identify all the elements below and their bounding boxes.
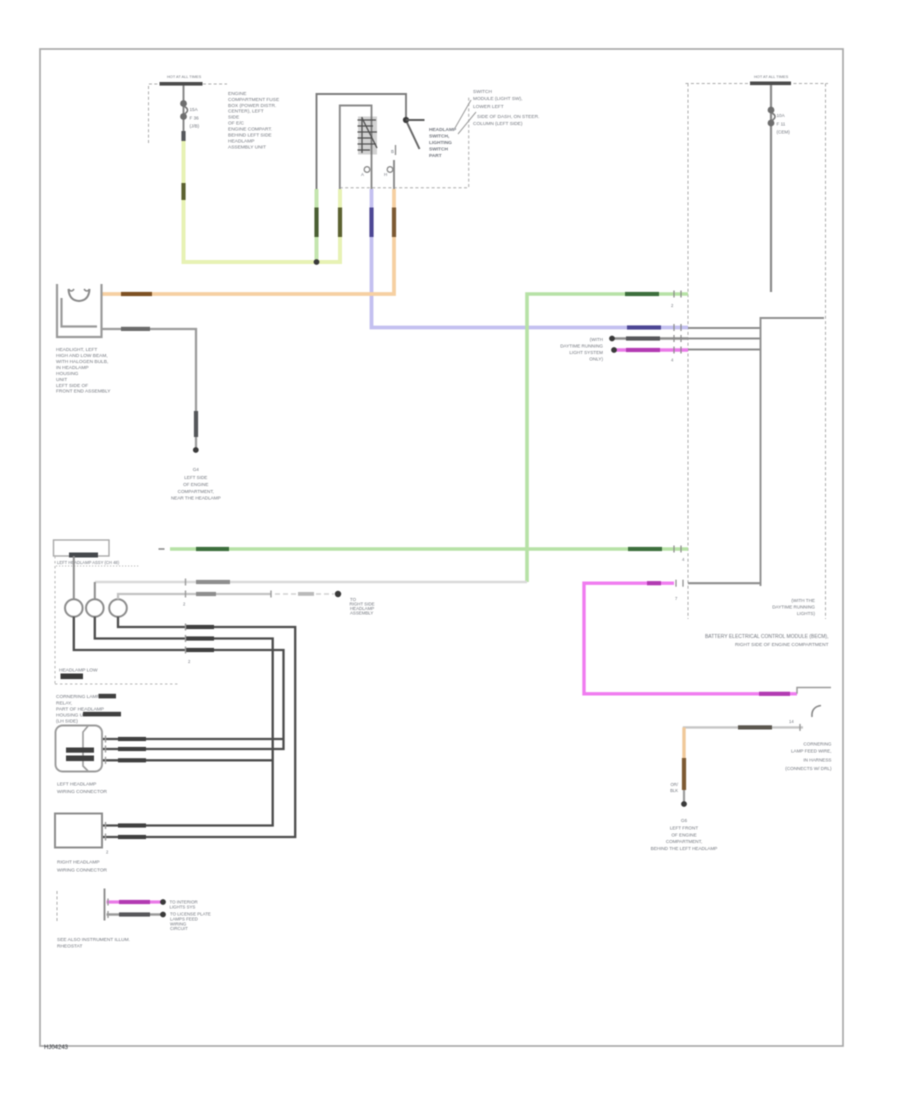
svg-text:LIGHTING: LIGHTING	[429, 140, 452, 146]
wire B2 top to white run	[94, 582, 96, 599]
hot-at-all-times bus bar	[160, 82, 203, 86]
svg-text:CORNERING: CORNERING	[803, 742, 832, 747]
dark segment in line 1	[99, 694, 117, 699]
pin ticks green at CEM	[673, 546, 675, 553]
ground junction dot	[681, 801, 687, 807]
bulb return wires loop C	[74, 617, 284, 749]
band BLK vertical	[194, 411, 198, 437]
blue wire below switch	[372, 189, 689, 328]
svg-text:LEFT HEADLAMP ASSY (CH 48): LEFT HEADLAMP ASSY (CH 48)	[57, 560, 120, 565]
svg-text:OF E/C: OF E/C	[228, 121, 245, 127]
splice band on fuse wire	[181, 131, 185, 141]
svg-text:RHEOSTAT: RHEOSTAT	[57, 944, 82, 950]
rotary switch symbol	[358, 117, 377, 155]
fuse F1 symbol	[180, 100, 187, 120]
headlamp ground wire to G4	[102, 329, 197, 450]
svg-text:IN HEADLAMP: IN HEADLAMP	[56, 365, 89, 371]
svg-text:(J/B): (J/B)	[190, 124, 200, 129]
lever tick and letter	[395, 145, 397, 155]
svg-text:(CONNECTS W/ DRL): (CONNECTS W/ DRL)	[785, 766, 832, 771]
svg-text:HJ04243: HJ04243	[44, 1045, 69, 1051]
faint continuation and label	[275, 593, 297, 595]
svg-text:15A: 15A	[190, 107, 199, 112]
svg-text:SIDE: SIDE	[228, 115, 239, 121]
band MAG	[119, 900, 150, 904]
wire from bus to fuse F2	[770, 85, 772, 292]
svg-text:CIRCUIT: CIRCUIT	[170, 926, 188, 931]
band GRY	[626, 336, 660, 340]
connector line 1	[102, 738, 284, 740]
svg-text:COLUMN (LEFT SIDE): COLUMN (LEFT SIDE)	[473, 121, 523, 127]
arrow terminal dot	[335, 591, 341, 597]
svg-text:HIGH AND LOW BEAM,: HIGH AND LOW BEAM,	[56, 353, 108, 359]
svg-text:PART: PART	[429, 153, 442, 159]
band PNK bottom	[759, 692, 790, 696]
svg-text:ENGINE: ENGINE	[228, 91, 246, 97]
left headlamp assembly connector box	[54, 540, 110, 556]
svg-text:HOUSING: HOUSING	[56, 371, 79, 377]
leader lines to external label	[455, 100, 471, 128]
svg-text:MODULE (LIGHT SW),: MODULE (LIGHT SW),	[473, 96, 522, 102]
wire box to B1	[73, 556, 75, 599]
svg-text:OR/: OR/	[671, 782, 679, 787]
hot-at-all-times bus bar right	[750, 82, 791, 86]
ground G6 label stack	[651, 818, 718, 851]
svg-text:UNIT: UNIT	[56, 377, 67, 383]
svg-text:B: B	[391, 149, 394, 154]
svg-text:NEAR THE HEADLAMP: NEAR THE HEADLAMP	[171, 496, 221, 501]
yellow wire below switch	[338, 189, 342, 262]
orange wire down and left to headlamp	[102, 189, 394, 294]
svg-text:RIGHT HEADLAMP: RIGHT HEADLAMP	[57, 860, 100, 866]
band GRN	[625, 292, 659, 296]
svg-text:COMPARTMENT,: COMPARTMENT,	[666, 839, 702, 844]
tick	[107, 899, 109, 906]
band BLU horizontal	[627, 325, 661, 329]
headlamp bulb housing	[57, 284, 102, 337]
svg-text:LIGHT SYSTEM: LIGHT SYSTEM	[569, 350, 603, 355]
pink wire loop	[584, 583, 797, 694]
body connector box	[55, 814, 102, 848]
svg-text:G4: G4	[193, 467, 200, 472]
svg-text:LOWER LEFT: LOWER LEFT	[473, 104, 504, 110]
svg-text:WIRING CONNECTOR: WIRING CONNECTOR	[57, 789, 108, 795]
svg-text:(WITH THE: (WITH THE	[791, 598, 815, 603]
svg-text:RELAY,: RELAY,	[56, 701, 72, 707]
terminal dot	[609, 336, 615, 342]
gray wire with terminal dot to CEM	[612, 337, 688, 340]
band PNK top	[647, 581, 661, 585]
wire from bus to fuse F1	[183, 86, 185, 147]
arrow dot	[160, 912, 166, 918]
svg-text:ENGINE COMPART.: ENGINE COMPART.	[228, 127, 272, 133]
svg-text:BEHIND THE LEFT HEADLAMP: BEHIND THE LEFT HEADLAMP	[651, 846, 718, 851]
inline connector C100 housing	[56, 726, 103, 772]
svg-text:SEE ALSO INSTRUMENT ILLUM.: SEE ALSO INSTRUMENT ILLUM.	[57, 937, 130, 943]
svg-text:(LH SIDE): (LH SIDE)	[56, 719, 78, 725]
rheostat edge line	[104, 889, 106, 921]
svg-text:(CEM): (CEM)	[777, 130, 791, 135]
park bulb B1	[65, 599, 83, 617]
gray stub wire	[107, 913, 164, 915]
svg-text:DAYTIME RUNNING: DAYTIME RUNNING	[772, 605, 815, 610]
band ORG vertical	[392, 208, 396, 238]
svg-text:LIGHTS): LIGHTS)	[797, 611, 816, 616]
CEM internal block	[761, 318, 825, 586]
magenta wire with terminal dot to CEM	[614, 348, 688, 351]
svg-text:HEADLAMP: HEADLAMP	[429, 127, 457, 133]
high beam bulb B3	[109, 599, 127, 617]
svg-text:CENTER), LEFT: CENTER), LEFT	[228, 109, 264, 115]
ticks on loop wires	[185, 624, 187, 654]
svg-text:H: H	[384, 172, 387, 177]
svg-text:SIDE OF DASH, ON STEER.: SIDE OF DASH, ON STEER.	[477, 114, 539, 120]
half connector hook	[812, 706, 821, 718]
bold segment	[61, 674, 84, 680]
band GRY	[119, 912, 150, 916]
dark segment in line 4	[83, 712, 121, 717]
svg-text:SWITCH: SWITCH	[429, 147, 448, 153]
yellow horizontal run to switch junction	[184, 260, 343, 264]
green wire below switch	[315, 189, 319, 262]
svg-text:FRONT END ASSEMBLY: FRONT END ASSEMBLY	[56, 389, 111, 395]
arrow destination label	[350, 597, 375, 616]
arrow dot	[160, 899, 166, 905]
svg-text:PART OF HEADLAMP: PART OF HEADLAMP	[56, 707, 104, 713]
svg-text:10A: 10A	[777, 113, 786, 118]
band GRN right	[628, 547, 662, 551]
svg-text:WITH HALOGEN BULB,: WITH HALOGEN BULB,	[56, 359, 108, 365]
pin tick white run	[185, 579, 187, 586]
headlamp switch dashed housing	[340, 96, 469, 188]
pin ticks green CEM	[673, 291, 675, 298]
svg-text:WIRING CONNECTOR: WIRING CONNECTOR	[57, 868, 108, 874]
svg-text:HOT AT ALL TIMES: HOT AT ALL TIMES	[754, 74, 789, 79]
svg-text:OF ENGINE: OF ENGINE	[183, 482, 208, 487]
switch pin circle B	[387, 167, 393, 173]
connector box bold label	[69, 553, 98, 558]
switch pin circle A	[364, 167, 370, 173]
assembly dashed underline bottom	[55, 683, 178, 685]
svg-text:A: A	[361, 172, 364, 177]
svg-text:ASSEMBLY UNIT: ASSEMBLY UNIT	[228, 145, 266, 151]
svg-text:HEADLAMP: HEADLAMP	[228, 139, 254, 145]
assembly dashed boundary	[54, 556, 56, 684]
svg-text:IN HARNESS: IN HARNESS	[803, 758, 831, 763]
svg-text:LEFT SIDE OF: LEFT SIDE OF	[56, 383, 88, 389]
svg-text:CORNERING LAMP: CORNERING LAMP	[56, 694, 100, 700]
ticks on connector wires	[105, 736, 107, 764]
svg-text:LAMP FEED WIRE,: LAMP FEED WIRE,	[791, 749, 832, 754]
svg-text:HEADLAMP LOW: HEADLAMP LOW	[59, 668, 98, 674]
end tick	[799, 724, 801, 731]
ground junction dot	[193, 447, 199, 453]
junction dot yellow-green	[314, 259, 320, 265]
bands on connector wires	[118, 737, 146, 741]
CEM with-DRL label	[772, 598, 815, 616]
fusebox CEM dashed boundary (top right)	[686, 84, 829, 620]
wire B3 top to arrow run	[118, 594, 271, 599]
svg-text:(WITH: (WITH	[590, 337, 603, 342]
svg-text:F 11: F 11	[777, 122, 786, 127]
band on horizontal	[738, 725, 772, 729]
wire bridge yellow-blue tops	[340, 106, 372, 191]
bulb filament	[69, 289, 90, 301]
bands on body connector wires	[118, 823, 146, 827]
pin ticks on blue gray magenta	[674, 324, 681, 354]
white low beam wire	[95, 581, 527, 584]
svg-text:LEFT SIDE: LEFT SIDE	[184, 475, 207, 480]
svg-text:BOX (POWER DISTR.: BOX (POWER DISTR.	[228, 103, 276, 109]
gray continuation wires inside CEM	[688, 328, 761, 350]
svg-text:LEFT HEADLAMP: LEFT HEADLAMP	[57, 782, 96, 788]
C100 mating interface	[83, 726, 88, 771]
band WHT	[196, 580, 230, 584]
band GRN left	[196, 547, 229, 551]
orange wire from switch	[393, 160, 395, 190]
low beam bulb B2	[86, 599, 104, 617]
svg-text:RIGHT SIDE OF ENGINE COMPARTME: RIGHT SIDE OF ENGINE COMPARTMENT	[735, 642, 829, 648]
svg-text:BATTERY ELECTRICAL CONTROL MOD: BATTERY ELECTRICAL CONTROL MODULE (BECM)…	[705, 634, 829, 640]
headlamp label text block	[56, 347, 111, 395]
magenta stub wire	[107, 900, 164, 903]
band ORG vertical	[682, 758, 686, 790]
band ORG horizontal	[121, 292, 152, 296]
pin tick arrow run	[185, 591, 187, 598]
orange segment	[682, 727, 685, 760]
C100 bold designation	[66, 748, 94, 753]
svg-text:OF ENGINE: OF ENGINE	[671, 833, 696, 838]
ticks on body connector wires	[105, 822, 107, 841]
tick on arrow run	[270, 591, 272, 598]
svg-text:SWITCH,: SWITCH,	[429, 134, 450, 140]
pink wire end connector step	[797, 688, 831, 694]
fuse F2 symbol	[768, 107, 775, 127]
green wire right circuit to CEM	[527, 294, 688, 582]
band YEL	[338, 208, 342, 238]
pin tick at headlamp end	[159, 548, 165, 550]
svg-text:COMPARTMENT,: COMPARTMENT,	[178, 489, 214, 494]
wire from switch contact to green drop	[317, 94, 407, 262]
svg-text:14: 14	[789, 719, 794, 724]
svg-text:HEADLIGHT, LEFT: HEADLIGHT, LEFT	[56, 347, 97, 353]
connector line 3	[102, 759, 273, 761]
daytime running module label	[560, 337, 603, 362]
svg-text:ONLY): ONLY)	[589, 357, 603, 362]
fusebox F1 dashed boundary (top left)	[149, 84, 228, 143]
long green wire across middle	[170, 547, 688, 551]
rheostat stub dashed boundary	[56, 891, 58, 921]
band BLU vertical	[369, 208, 373, 238]
svg-text:SWITCH: SWITCH	[473, 89, 492, 95]
svg-text:BLK: BLK	[670, 788, 678, 793]
svg-text:DAYTIME RUNNING: DAYTIME RUNNING	[560, 344, 603, 349]
switch lever	[407, 123, 420, 150]
cornering relay text block	[56, 694, 104, 725]
band BLK horizontal	[121, 327, 150, 331]
svg-text:LIGHTS SYS: LIGHTS SYS	[170, 905, 196, 910]
tick	[107, 911, 109, 918]
svg-text:LEFT FRONT: LEFT FRONT	[670, 826, 698, 831]
CEM wire bottom to pink connector	[688, 582, 761, 584]
terminal dot	[611, 347, 617, 353]
bands on loop wires	[186, 625, 214, 629]
band GRN	[314, 208, 318, 238]
band MAG	[626, 348, 660, 352]
CEM module name label	[705, 634, 829, 648]
contact stub	[406, 119, 425, 121]
orange wire bottom right to ground	[684, 727, 803, 756]
pin ticks pink at CEM	[675, 580, 677, 587]
band on arrow run	[196, 592, 216, 596]
svg-text:F 36: F 36	[190, 116, 200, 121]
bulb return wires loop A	[102, 617, 295, 837]
bulb return wires loop B	[95, 617, 273, 826]
CEM lower right text	[785, 742, 832, 772]
switch external label	[473, 89, 539, 127]
svg-text:G6: G6	[681, 818, 688, 823]
ground G4 label stack	[171, 467, 221, 501]
svg-text:COMPARTMENT FUSE: COMPARTMENT FUSE	[228, 97, 279, 103]
svg-text:HOT AT ALL TIMES: HOT AT ALL TIMES	[167, 74, 202, 79]
engine compartment fuse box text block	[228, 91, 279, 151]
svg-text:ASSEMBLY: ASSEMBLY	[350, 611, 373, 616]
yellow wire from fuse F1 down	[182, 141, 186, 264]
gray tail to ground	[683, 790, 685, 802]
wire color band YEL	[181, 183, 185, 200]
switch internal label	[429, 127, 457, 159]
svg-text:BEHIND LEFT SIDE: BEHIND LEFT SIDE	[228, 133, 272, 139]
switch wiper contact dot	[403, 117, 409, 123]
